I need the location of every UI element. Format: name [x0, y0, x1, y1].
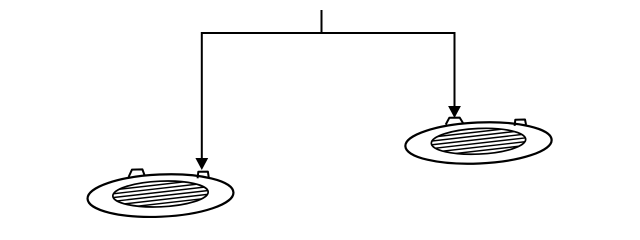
left lens tab B (right, under arrow) — [198, 172, 209, 179]
right lens hatch lines — [423, 126, 534, 158]
right lens tab B (right) — [515, 120, 526, 126]
right lens inner ellipse — [431, 126, 526, 156]
arrowhead right — [448, 106, 461, 118]
left lens outer ellipse — [87, 171, 235, 220]
wire: horizontal branch with left and right drops — [202, 33, 455, 158]
right lens tab A (left, under arrow) — [446, 118, 463, 125]
left lens tab A (left) — [129, 169, 145, 177]
wire: top vertical stub — [321, 10, 323, 34]
arrowhead left — [195, 158, 208, 170]
right lens outer ellipse — [404, 119, 552, 166]
left lens hatch lines — [105, 178, 216, 210]
left lens inner ellipse — [112, 179, 208, 209]
